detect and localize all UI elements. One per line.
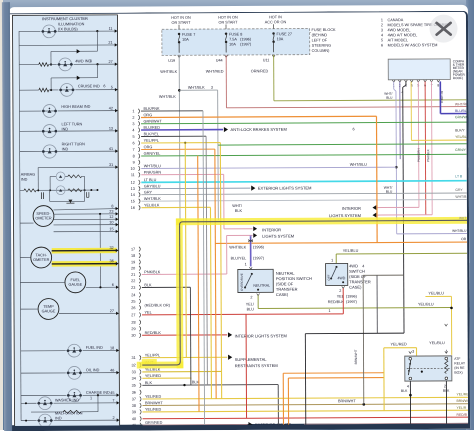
svg-text:ATF: ATF: [454, 357, 460, 361]
svg-text:6: 6: [132, 141, 134, 145]
svg-text:IND: IND: [55, 416, 62, 420]
svg-text:ACC OR ON: ACC OR ON: [265, 20, 287, 24]
svg-text:WHT/BLK: WHT/BLK: [159, 95, 176, 99]
svg-text:4: 4: [132, 128, 134, 132]
svg-text:YEL/RED: YEL/RED: [390, 342, 407, 346]
svg-text:LEFT TURN: LEFT TURN: [62, 122, 83, 126]
svg-text:31: 31: [109, 163, 113, 167]
svg-text:ORN/RED: ORN/RED: [251, 69, 269, 73]
svg-text:WHT/BLU: WHT/BLU: [144, 164, 161, 168]
svg-text:GRN/Y: GRN/Y: [455, 148, 466, 152]
svg-text:2: 2: [112, 416, 114, 420]
svg-text:ORG: ORG: [143, 113, 152, 117]
svg-text:BRN/W: BRN/W: [456, 399, 468, 403]
svg-text:HIGH BEAM IND: HIGH BEAM IND: [61, 105, 90, 109]
svg-text:11: 11: [131, 173, 135, 177]
svg-text:4WD: 4WD: [349, 263, 358, 268]
svg-text:IND: IND: [62, 147, 69, 151]
svg-text:YEL/RED: YEL/RED: [145, 374, 162, 378]
svg-text:GRY/BLU: GRY/BLU: [144, 184, 161, 188]
svg-text:BLK/Y: BLK/Y: [455, 128, 465, 132]
svg-text:LIGHTS SYSTEM: LIGHTS SYSTEM: [329, 213, 361, 218]
svg-text:7: 7: [112, 399, 114, 403]
svg-text:GRY: GRY: [144, 190, 153, 194]
svg-text:(BEHIND: (BEHIND: [312, 33, 328, 37]
svg-text:4WD: 4WD: [337, 276, 345, 280]
svg-text:AIRBAG: AIRBAG: [21, 173, 35, 177]
svg-text:19: 19: [131, 260, 135, 264]
svg-text:PNK/GRN: PNK/GRN: [417, 148, 421, 162]
svg-text:42: 42: [109, 106, 113, 110]
svg-text:OIL IND: OIL IND: [86, 368, 100, 372]
svg-text:BLK: BLK: [401, 389, 408, 393]
svg-text:GRN/YEL: GRN/YEL: [144, 152, 161, 156]
svg-text:BLK/YEL: BLK/YEL: [144, 132, 159, 136]
svg-text:(1997): (1997): [346, 300, 358, 304]
svg-text:6: 6: [353, 127, 355, 131]
svg-text:7: 7: [133, 148, 135, 152]
svg-text:PNK/BLK: PNK/BLK: [144, 270, 161, 274]
svg-text:OFF: OFF: [327, 274, 331, 280]
svg-text:U19: U19: [168, 59, 175, 63]
svg-text:4WD A/T MODEL: 4WD A/T MODEL: [388, 33, 418, 37]
svg-text:2: 2: [339, 289, 341, 293]
svg-text:32: 32: [132, 363, 136, 367]
svg-text:WHT/BLK: WHT/BLK: [229, 245, 246, 249]
svg-text:(1996): (1996): [253, 245, 265, 249]
svg-text:26: 26: [131, 306, 135, 310]
svg-text:6: 6: [381, 43, 383, 47]
svg-text:24: 24: [131, 293, 135, 297]
svg-text:WHT/: WHT/: [232, 204, 243, 208]
svg-text:22: 22: [131, 279, 135, 283]
svg-text:BLU: BLU: [247, 307, 255, 311]
svg-text:YEL/BLU: YEL/BLU: [418, 302, 434, 306]
svg-text:(IN RE: (IN RE: [454, 366, 465, 370]
svg-text:37: 37: [132, 397, 136, 401]
svg-text:ANTI-LOCK BRAKES SYSTEM: ANTI-LOCK BRAKES SYSTEM: [231, 127, 287, 132]
svg-text:1: 1: [245, 262, 247, 266]
svg-text:14: 14: [131, 193, 135, 197]
svg-text:17: 17: [131, 247, 135, 251]
svg-text:30: 30: [131, 334, 135, 338]
svg-text:40: 40: [132, 417, 136, 421]
svg-text:36: 36: [132, 391, 136, 395]
svg-text:18: 18: [131, 254, 135, 258]
svg-text:28: 28: [131, 321, 135, 325]
svg-text:MODELS W/ ASCD SYSTEM: MODELS W/ ASCD SYSTEM: [388, 43, 438, 47]
svg-text:8: 8: [111, 204, 113, 208]
svg-text:FUEL: FUEL: [70, 278, 80, 282]
svg-text:27: 27: [110, 309, 114, 313]
svg-text:YEL/R: YEL/R: [457, 406, 467, 410]
svg-text:6: 6: [103, 84, 105, 88]
svg-text:TRANSFER: TRANSFER: [349, 279, 371, 284]
svg-text:BLU: BLU: [386, 96, 393, 100]
svg-text:YEL/RED: YEL/RED: [145, 395, 162, 399]
svg-text:LEFT OF: LEFT OF: [312, 38, 328, 42]
svg-text:39: 39: [132, 410, 136, 414]
svg-text:BLK: BLK: [235, 209, 243, 213]
svg-text:3: 3: [132, 122, 134, 126]
svg-text:LT B: LT B: [455, 174, 463, 178]
svg-text:1: 1: [331, 258, 333, 262]
svg-text:4WD MODEL: 4WD MODEL: [388, 28, 411, 32]
svg-text:EXTERIOR LIGHTS SYSTEM: EXTERIOR LIGHTS SYSTEM: [258, 185, 312, 190]
svg-text:12: 12: [109, 215, 113, 219]
svg-text:TRANSFER: TRANSFER: [276, 287, 298, 292]
svg-text:15: 15: [109, 227, 113, 231]
svg-text:4: 4: [362, 264, 364, 268]
svg-text:CRUISE IND: CRUISE IND: [78, 84, 100, 88]
svg-text:INTERIOR LIGHTS SYSTEM: INTERIOR LIGHTS SYSTEM: [235, 333, 287, 338]
svg-text:MALFUNCTION: MALFUNCTION: [55, 411, 83, 415]
svg-text:21: 21: [108, 41, 112, 45]
svg-text:12: 12: [131, 181, 135, 185]
svg-text:23: 23: [109, 210, 113, 214]
svg-text:RESTRAINTS SYSTEM: RESTRAINTS SYSTEM: [235, 363, 278, 368]
svg-text:8: 8: [437, 83, 439, 87]
svg-text:YEL/: YEL/: [246, 302, 255, 306]
svg-text:20: 20: [131, 267, 135, 271]
svg-text:29: 29: [131, 327, 135, 331]
svg-text:(RED/BLK OR): (RED/BLK OR): [144, 303, 170, 307]
svg-text:YEL/BLU: YEL/BLU: [428, 291, 444, 295]
svg-text:WHT/BLU: WHT/BLU: [452, 229, 467, 233]
svg-text:(1997): (1997): [240, 42, 252, 46]
svg-text:OR START: OR START: [219, 20, 239, 24]
svg-text:(IX BULBS): (IX BULBS): [58, 27, 78, 31]
svg-text:5: 5: [111, 85, 113, 89]
svg-text:OMETER: OMETER: [33, 258, 50, 262]
svg-text:WHT/B: WHT/B: [455, 195, 467, 199]
svg-text:GAUGE: GAUGE: [68, 283, 82, 287]
svg-text:WHT/RD: WHT/RD: [455, 102, 469, 106]
svg-text:(1996): (1996): [240, 37, 252, 41]
svg-text:36: 36: [109, 259, 113, 263]
svg-text:RIGHT TURN: RIGHT TURN: [62, 142, 86, 146]
svg-text:YEL/PPL: YEL/PPL: [144, 139, 159, 143]
svg-text:YEL/RE: YEL/RE: [456, 392, 469, 396]
svg-text:YEL: YEL: [144, 311, 151, 315]
svg-text:WASHER IND: WASHER IND: [55, 398, 79, 402]
svg-text:33: 33: [132, 370, 136, 374]
svg-text:YEL/BLK: YEL/BLK: [144, 203, 160, 207]
svg-text:9: 9: [133, 161, 135, 165]
svg-text:FUSE 27: FUSE 27: [277, 32, 292, 36]
svg-text:CASE): CASE): [276, 292, 289, 297]
svg-text:U44: U44: [216, 59, 223, 63]
svg-text:RED/B: RED/B: [457, 413, 468, 417]
svg-text:GAUGE: GAUGE: [42, 309, 56, 313]
svg-text:11: 11: [109, 27, 113, 31]
svg-text:13: 13: [109, 127, 113, 131]
svg-text:OMETER: OMETER: [35, 216, 52, 220]
svg-text:10A: 10A: [277, 37, 284, 41]
svg-text:10: 10: [131, 167, 135, 171]
svg-text:2: 2: [132, 116, 134, 120]
svg-text:BLU/BL: BLU/BL: [455, 109, 467, 113]
svg-text:FUSE 8: FUSE 8: [229, 32, 242, 36]
svg-text:27: 27: [131, 313, 135, 317]
svg-text:WHT/BLU: WHT/BLU: [350, 163, 367, 167]
svg-text:BLU/YEL: BLU/YEL: [231, 256, 247, 260]
svg-text:RELAY: RELAY: [454, 361, 466, 365]
svg-text:YEL/BLU: YEL/BLU: [343, 249, 359, 253]
svg-text:BLU/RED: BLU/RED: [144, 126, 161, 130]
svg-text:(1997): (1997): [253, 256, 265, 260]
svg-text:WHT: WHT: [459, 216, 466, 220]
svg-text:3: 3: [412, 350, 414, 354]
svg-text:10: 10: [109, 220, 113, 224]
svg-text:INTERIOR: INTERIOR: [342, 206, 361, 211]
svg-text:38: 38: [132, 404, 136, 408]
svg-text:RED/BLK: RED/BLK: [328, 300, 345, 304]
svg-text:TACH-: TACH-: [36, 253, 48, 257]
svg-text:41: 41: [132, 423, 136, 427]
svg-text:EXTERIOR LIGHTS: EXTERIOR LIGHTS: [255, 422, 291, 427]
svg-text:CANADA: CANADA: [387, 18, 403, 22]
svg-text:41: 41: [109, 147, 113, 151]
svg-text:1: 1: [132, 109, 134, 113]
svg-text:35: 35: [132, 384, 136, 388]
svg-text:BRN/WHT: BRN/WHT: [354, 349, 358, 364]
svg-text:8: 8: [133, 154, 135, 158]
svg-text:CASE): CASE): [349, 285, 362, 290]
svg-text:FUSE 7: FUSE 7: [182, 33, 195, 37]
svg-text:3: 3: [381, 28, 383, 32]
svg-text:GRN/WHT: GRN/WHT: [143, 119, 162, 123]
svg-text:18: 18: [110, 346, 114, 350]
svg-text:HOT IN ON: HOT IN ON: [171, 16, 191, 20]
svg-text:21: 21: [131, 273, 135, 277]
svg-text:HOT IN ON: HOT IN ON: [218, 15, 238, 19]
svg-text:WHT/BLK: WHT/BLK: [188, 86, 205, 90]
svg-text:BLK: BLK: [145, 381, 153, 385]
svg-text:46: 46: [110, 368, 114, 372]
svg-text:YEL/BLU: YEL/BLU: [429, 341, 445, 345]
svg-text:IND: IND: [21, 178, 28, 182]
svg-text:34: 34: [132, 377, 136, 381]
svg-text:FUEL IND: FUEL IND: [86, 346, 103, 350]
svg-text:INSTRUMENT CLUSTER: INSTRUMENT CLUSTER: [42, 16, 88, 21]
svg-text:RED/BLK: RED/BLK: [145, 331, 162, 335]
svg-text:2: 2: [381, 23, 383, 27]
svg-text:GRN/W: GRN/W: [455, 115, 467, 119]
svg-text:5: 5: [381, 38, 383, 42]
svg-text:GRY: GRY: [455, 188, 463, 192]
svg-text:INTERIOR: INTERIOR: [262, 227, 281, 232]
svg-text:U11: U11: [263, 58, 270, 62]
svg-text:4: 4: [381, 33, 383, 37]
svg-text:Y: Y: [400, 91, 404, 93]
svg-text:45: 45: [110, 391, 114, 395]
svg-text:OR: OR: [461, 237, 467, 241]
svg-text:(1996): (1996): [346, 295, 358, 299]
svg-text:HOT IN: HOT IN: [269, 15, 282, 19]
svg-text:ROOF): ROOF): [453, 76, 463, 80]
svg-text:2: 2: [250, 296, 252, 300]
svg-text:3: 3: [211, 86, 213, 90]
svg-text:6: 6: [112, 283, 114, 287]
svg-text:ORG: ORG: [144, 145, 153, 149]
svg-text:27: 27: [108, 60, 112, 64]
svg-text:3: 3: [90, 59, 92, 63]
svg-text:ILLUMINATION: ILLUMINATION: [58, 22, 85, 26]
svg-text:COLUMN): COLUMN): [312, 49, 330, 53]
svg-text:BOX): BOX): [454, 371, 462, 375]
svg-text:BRN/WHT: BRN/WHT: [145, 401, 163, 405]
svg-text:7.5A: 7.5A: [229, 37, 237, 41]
svg-text:GRY/RED: GRY/RED: [145, 421, 163, 425]
svg-text:WHT/BLK: WHT/BLK: [160, 70, 177, 74]
svg-text:32: 32: [109, 246, 113, 250]
svg-text:YEL/BL: YEL/BL: [455, 135, 467, 139]
svg-text:25: 25: [131, 300, 135, 304]
svg-text:1: 1: [90, 396, 92, 400]
svg-text:OR START: OR START: [172, 21, 192, 25]
svg-text:31: 31: [132, 356, 136, 360]
svg-text:23: 23: [131, 286, 135, 290]
svg-text:10A: 10A: [182, 38, 189, 42]
svg-text:5: 5: [132, 135, 134, 139]
svg-text:1: 1: [328, 309, 330, 313]
svg-text:PNK/GRN: PNK/GRN: [144, 170, 162, 174]
svg-text:NEUTRAL: NEUTRAL: [253, 284, 270, 288]
svg-text:LIGHTS SYSTEM: LIGHTS SYSTEM: [262, 234, 294, 239]
svg-text:STEERING: STEERING: [312, 44, 331, 48]
svg-text:OVERDRIVE: OVERDRIVE: [240, 273, 244, 291]
svg-text:10A: 10A: [229, 43, 236, 47]
svg-text:YEL/RED: YEL/RED: [145, 408, 162, 412]
svg-text:TEMP: TEMP: [43, 305, 54, 309]
svg-text:LT BLU: LT BLU: [144, 178, 157, 182]
svg-text:SUPPLEMENTAL: SUPPLEMENTAL: [235, 357, 268, 362]
svg-text:BLK: BLK: [144, 283, 152, 287]
svg-text:BLK/PNK: BLK/PNK: [143, 107, 160, 111]
svg-text:16: 16: [131, 206, 135, 210]
svg-text:WHT/RED: WHT/RED: [206, 70, 224, 74]
svg-text:YEL/PPL: YEL/PPL: [145, 353, 160, 357]
svg-text:SPEED-: SPEED-: [36, 212, 51, 216]
svg-text:1: 1: [381, 18, 383, 22]
svg-text:BRN/WHT: BRN/WHT: [338, 399, 356, 403]
svg-text:POSITION SWITCH: POSITION SWITCH: [276, 276, 312, 281]
svg-text:A/T MODEL: A/T MODEL: [388, 38, 408, 42]
svg-text:FUSE BLOCK: FUSE BLOCK: [312, 28, 337, 32]
svg-text:13: 13: [131, 187, 135, 191]
svg-text:15: 15: [131, 200, 135, 204]
svg-text:PNK/BLK: PNK/BLK: [426, 149, 430, 162]
svg-text:WHT/BLK: WHT/BLK: [144, 197, 161, 201]
